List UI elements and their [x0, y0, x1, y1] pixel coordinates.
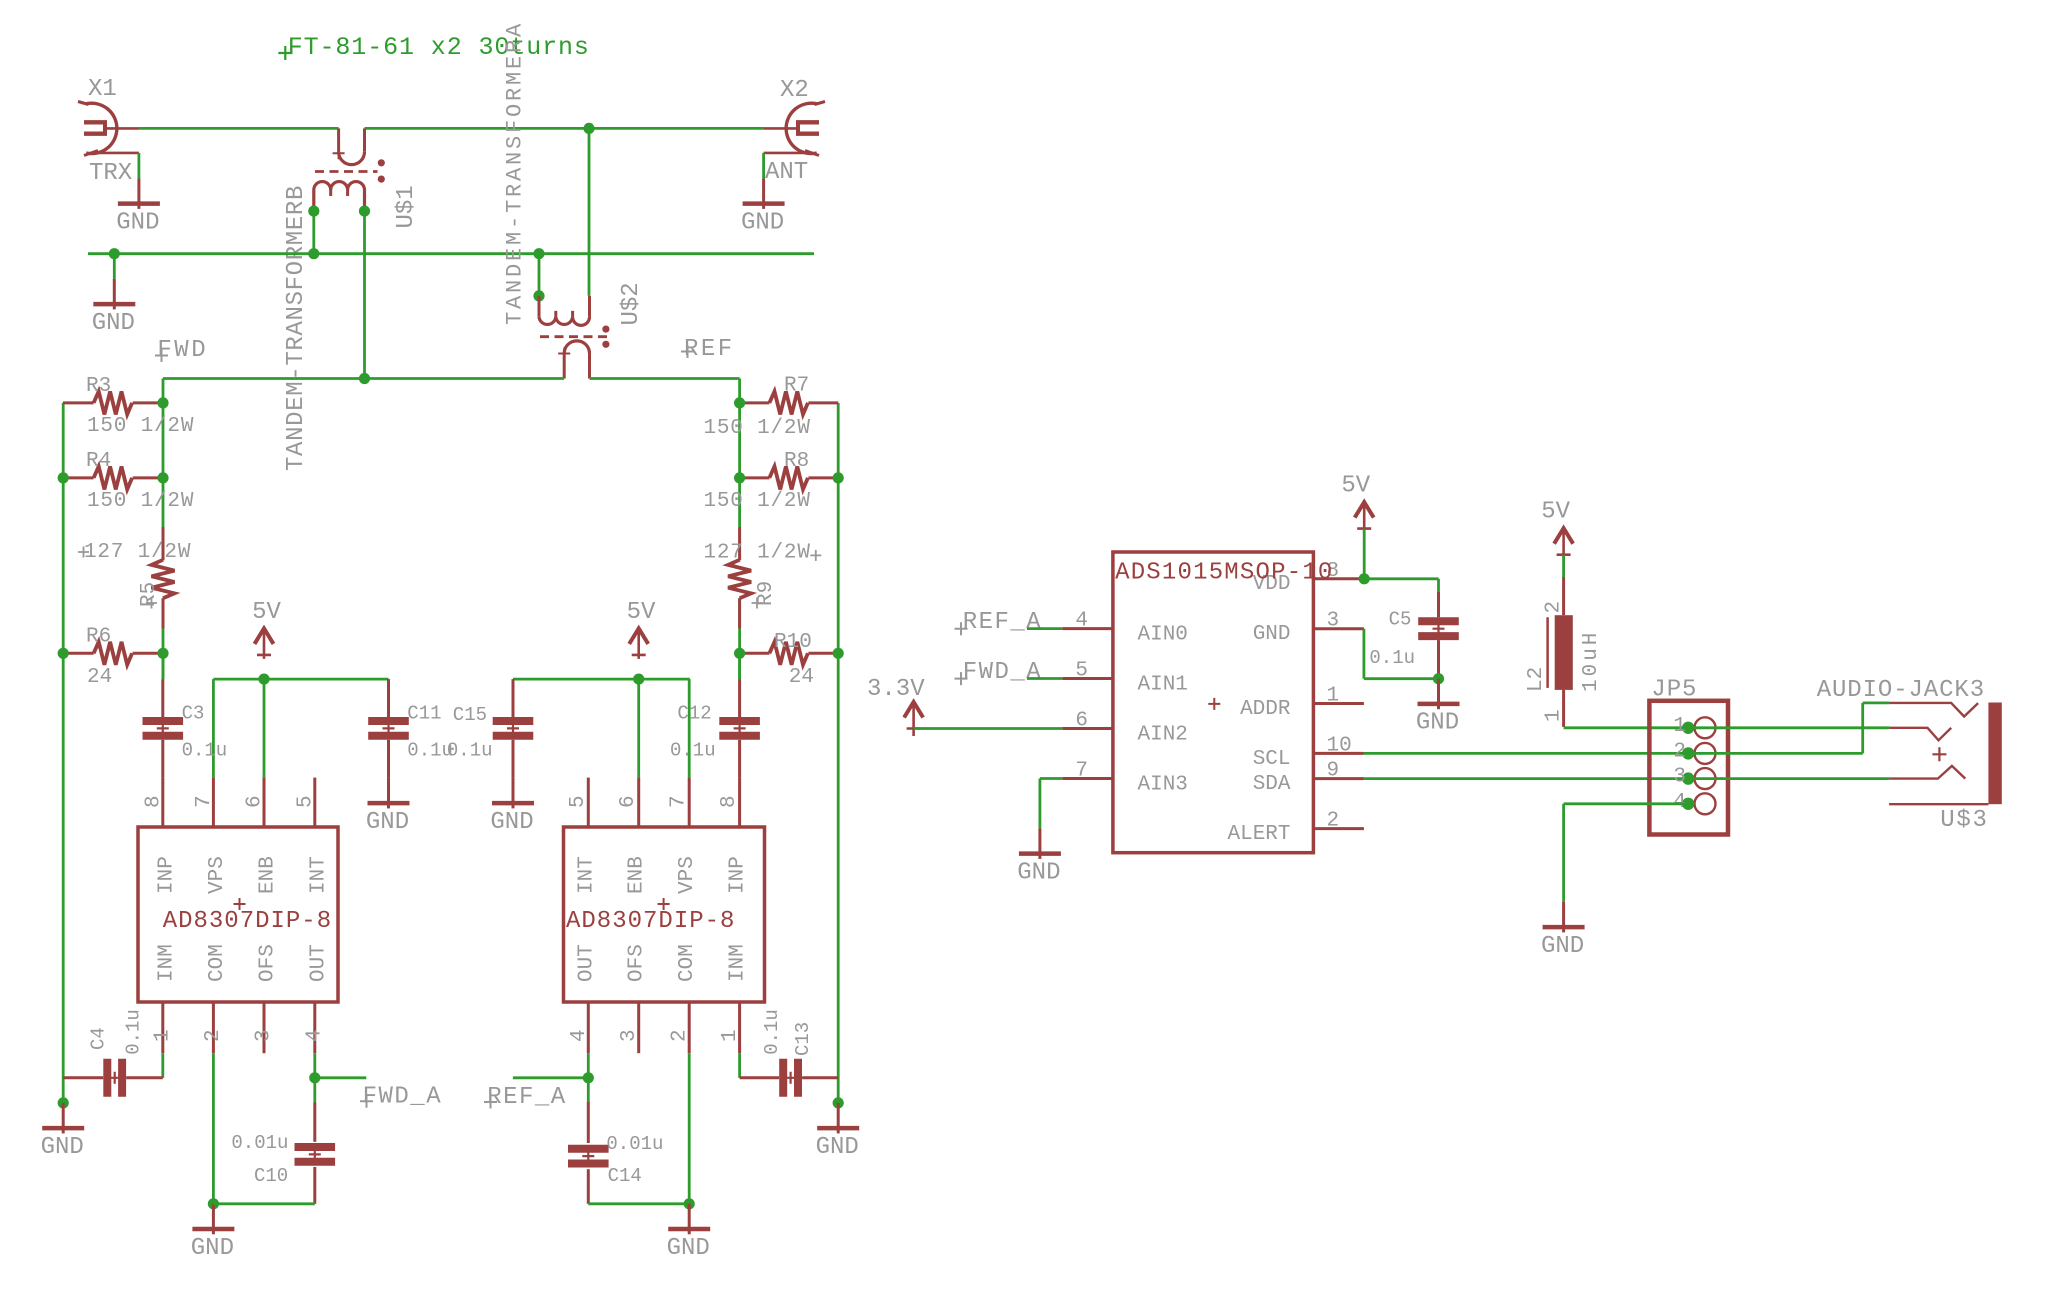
wire U$1 left leg to rail2 [312, 211, 315, 254]
wire 5V right drop to ENB pin6 [637, 679, 640, 778]
svg-text:INT: INT [307, 856, 330, 894]
capacitor C5 leads [1437, 592, 1440, 617]
svg-text:0.1u: 0.1u [123, 1009, 145, 1055]
IC2 top pin 5 stub [587, 778, 590, 827]
svg-text:2: 2 [1327, 810, 1340, 833]
wire second rail [88, 252, 814, 255]
transformer U$1 secondary [314, 182, 365, 212]
svg-text:4: 4 [1075, 610, 1088, 633]
capacitor C11 leads [387, 679, 390, 717]
ADS pin 1 stub [1313, 702, 1364, 705]
svg-text:R7: R7 [784, 375, 809, 398]
wire 3.3V to AIN2 [914, 727, 1063, 730]
IC1 bottom pin 1 stub [161, 1002, 164, 1053]
svg-text:1: 1 [1327, 685, 1340, 708]
svg-text:INP: INP [155, 856, 178, 894]
svg-text:ANT: ANT [765, 159, 808, 186]
ground GND (C14) [667, 1204, 711, 1262]
resistor R9 [728, 527, 751, 628]
svg-text:AIN0: AIN0 [1138, 624, 1188, 647]
svg-text:1: 1 [151, 1029, 174, 1042]
wire FWD_A to AIN1 [1027, 677, 1062, 680]
JP5 pin 3 pad [1695, 768, 1716, 789]
svg-text:R10: R10 [774, 631, 812, 654]
wire REF column down [738, 379, 741, 528]
transformer U$2 primary [558, 341, 589, 379]
ground GND (JP5) [1541, 902, 1585, 960]
transformer U$1 polarity dots [378, 159, 385, 166]
node R10 right [833, 648, 844, 659]
node C10 ground junction [208, 1198, 219, 1209]
wire U$1 right leg to FWD rail [363, 211, 366, 378]
resistor R3 [63, 391, 163, 414]
wire IC1 pin1 to C4 [161, 1053, 164, 1078]
svg-text:X2: X2 [780, 77, 809, 104]
JP5 pin 4 pad [1695, 793, 1716, 814]
resistor R6 [63, 642, 163, 665]
wire JP5 pin3 to jack contact [1688, 777, 1889, 780]
svg-text:REF_A: REF_A [963, 609, 1043, 636]
svg-text:AIN1: AIN1 [1138, 674, 1188, 697]
svg-text:TANDEM-TRANSFORMERB: TANDEM-TRANSFORMERB [283, 185, 310, 471]
svg-text:VPS: VPS [206, 856, 229, 894]
svg-text:GND: GND [490, 809, 533, 836]
svg-text:C12: C12 [677, 702, 711, 724]
svg-text:C3: C3 [182, 702, 205, 724]
node R6 right [157, 648, 168, 659]
ground GND (C11) [366, 778, 410, 836]
svg-text:0.01u: 0.01u [231, 1132, 288, 1154]
svg-text:4: 4 [303, 1029, 326, 1042]
wire REF rail [590, 377, 740, 380]
svg-text:SDA: SDA [1253, 773, 1291, 796]
svg-text:0.1u: 0.1u [447, 740, 493, 762]
wire X2 shield to ground [762, 153, 765, 179]
svg-text:TRX: TRX [89, 160, 132, 187]
svg-text:AD8307DIP-8: AD8307DIP-8 [163, 908, 332, 935]
svg-text:INM: INM [727, 944, 750, 982]
svg-text:C11: C11 [407, 702, 441, 724]
svg-text:GND: GND [116, 209, 159, 236]
ADS pin 6 stub [1062, 727, 1113, 730]
wire JP5 pin4 to ground [1564, 802, 1689, 805]
svg-text:2: 2 [669, 1029, 692, 1042]
svg-text:5V: 5V [627, 599, 656, 626]
capacitor C12 [719, 721, 760, 736]
svg-text:2: 2 [202, 1029, 225, 1042]
ground GND (AIN3) [1017, 828, 1061, 886]
wire SDA to JP5 pin3 [1364, 777, 1688, 780]
svg-text:8: 8 [718, 795, 741, 808]
node R4 left [58, 472, 69, 483]
wire IC2 pin1 to C13 [738, 1053, 741, 1078]
svg-text:OFS: OFS [626, 944, 649, 982]
ground GND (rail2) [92, 279, 136, 337]
IC2 top pin 8 stub [738, 778, 741, 827]
wire REF column R9 to R10 [738, 598, 741, 679]
wire top rail left (X1 to U$1) [139, 127, 339, 130]
node FWD rail / U$1 right leg [359, 373, 370, 384]
resistor R7 [740, 391, 839, 414]
IC1 top pin 6 stub [263, 778, 266, 827]
wire 5V to VDD pin8 [1363, 529, 1366, 579]
svg-text:150 1/2W: 150 1/2W [87, 490, 194, 513]
IC1 bottom pin 2 stub [212, 1002, 215, 1053]
svg-text:7: 7 [193, 795, 216, 808]
svg-text:GND: GND [741, 209, 784, 236]
svg-text:U$1: U$1 [393, 185, 420, 228]
capacitor C13 leads [740, 1076, 780, 1079]
wire FWD column R5 to R6 [162, 598, 165, 679]
svg-text:6: 6 [617, 795, 640, 808]
JP5 pin3 stub [1716, 777, 1724, 779]
capacitor C15 [493, 721, 534, 736]
svg-text:ADDR: ADDR [1240, 698, 1291, 721]
svg-text:2: 2 [1673, 740, 1686, 763]
wire IC2 pin4 OUT down [587, 1053, 590, 1101]
node U$2 left leg [533, 290, 544, 301]
capacitor C3 [143, 721, 184, 736]
capacitor C14 leads [587, 1101, 590, 1143]
svg-text:VPS: VPS [676, 856, 699, 894]
inductor L2 [1548, 577, 1573, 727]
svg-text:150 1/2W: 150 1/2W [704, 417, 811, 440]
svg-text:5V: 5V [1541, 499, 1570, 526]
ADS pin 10 stub [1313, 752, 1364, 755]
jack U$3 sleeve pin [1889, 803, 1988, 805]
svg-text:FT-81-61 x2 30turns: FT-81-61 x2 30turns [288, 33, 590, 62]
wire top rail right (U$1 to X2) [365, 127, 764, 130]
svg-text:8: 8 [142, 795, 165, 808]
capacitor C4 leads [63, 1076, 103, 1079]
svg-text:5: 5 [567, 795, 590, 808]
JP5 pin 1 pad [1695, 717, 1716, 738]
svg-text:5: 5 [294, 795, 317, 808]
connector X2 (BNC ANT) [764, 102, 825, 156]
wire 5V left drop to VPS pin7 [212, 679, 215, 778]
svg-text:REF: REF [684, 336, 735, 363]
svg-text:OUT: OUT [307, 944, 330, 982]
ground GND (C10) [191, 1204, 235, 1262]
svg-text:3: 3 [618, 1029, 641, 1042]
svg-text:AIN2: AIN2 [1138, 724, 1188, 747]
svg-text:GND: GND [41, 1134, 84, 1161]
svg-text:C10: C10 [254, 1165, 288, 1187]
IC1 top pin 8 stub [161, 778, 164, 827]
node R7 left [734, 397, 745, 408]
node left rail ground junction [58, 1097, 69, 1108]
svg-text:4: 4 [1673, 791, 1686, 814]
jack U$3 contact 3 [1889, 766, 1965, 779]
svg-text:OFS: OFS [257, 944, 280, 982]
svg-text:ENB: ENB [257, 856, 280, 894]
wire U$2 right leg drop [588, 128, 591, 295]
jack U$3 contact 2 [1889, 728, 1951, 741]
svg-text:X1: X1 [88, 76, 117, 103]
wire VDD to C5 [1364, 577, 1438, 580]
node R4 right [157, 472, 168, 483]
svg-text:C14: C14 [608, 1165, 642, 1187]
op-amp/logamp U2 AD8307DIP-8 (right) box [564, 827, 765, 1002]
IC U3 ADS1015MSOP-10 box [1113, 552, 1314, 853]
node FWD_A junction [309, 1072, 320, 1083]
wire FWD rail [163, 377, 564, 380]
svg-text:R4: R4 [86, 450, 111, 473]
ground GND (C15) [490, 778, 534, 836]
ground GND (left rail) [41, 1103, 85, 1161]
wire SCL to JP5 pin2 [1364, 752, 1688, 755]
node 5V left [258, 674, 269, 685]
IC1 bottom pin 4 stub [313, 1002, 316, 1053]
node R6 left [58, 648, 69, 659]
IC2 bottom pin 3 stub [637, 1002, 640, 1053]
svg-text:AD8307DIP-8: AD8307DIP-8 [566, 908, 735, 935]
resistor R10 [740, 642, 839, 665]
supply symbol 5V [1341, 473, 1373, 533]
JP5 pin 2 junction [1682, 747, 1694, 759]
IC2 bottom pin 4 stub [587, 1002, 590, 1053]
svg-text:INT: INT [575, 856, 598, 894]
resistor R4 [63, 466, 163, 489]
svg-text:R3: R3 [86, 375, 111, 398]
svg-text:FWD: FWD [157, 337, 208, 364]
op-amp/logamp U1 AD8307DIP-8 (left) box [138, 827, 338, 1002]
svg-text:150 1/2W: 150 1/2W [87, 415, 194, 438]
capacitor C10 leads [313, 1103, 316, 1142]
ADS pin 9 stub [1313, 777, 1364, 780]
svg-text:GND: GND [191, 1235, 234, 1262]
capacitor C14 [568, 1149, 609, 1164]
svg-text:U$3: U$3 [1940, 807, 1988, 834]
ground GND (X1) [116, 178, 160, 236]
resistor R5 [152, 527, 175, 628]
svg-text:FWD_A: FWD_A [963, 659, 1043, 686]
transformer U$2 secondary [539, 296, 590, 326]
svg-text:GND: GND [92, 310, 135, 337]
JP5 pin 1 junction [1682, 722, 1694, 734]
ADS pin 2 stub [1313, 827, 1364, 830]
ADS pin 4 stub [1062, 627, 1113, 630]
svg-text:ENB: ENB [626, 856, 649, 894]
capacitor C10 [295, 1147, 336, 1162]
wire L2 to JP5 pin1 [1564, 726, 1689, 729]
IC2 top pin 6 stub [637, 778, 640, 827]
wire 5V rail right [513, 678, 690, 681]
svg-text:GND: GND [1017, 859, 1060, 886]
transformer U$2 polarity dots [602, 326, 609, 333]
wire right rail [837, 403, 840, 1103]
node U$1 right leg [359, 206, 370, 217]
resistor R8 [740, 466, 839, 489]
svg-text:GND: GND [1253, 623, 1291, 646]
svg-text:5V: 5V [252, 599, 281, 626]
svg-text:7: 7 [1075, 760, 1088, 783]
wire U$2 left leg drop [538, 254, 541, 296]
wire IC1 pin2 to ground [212, 1053, 215, 1204]
svg-text:INP: INP [727, 856, 750, 894]
svg-text:1: 1 [1673, 715, 1686, 738]
node rail2 U$1 left leg [308, 248, 319, 259]
svg-text:GND: GND [1541, 933, 1584, 960]
wire ADS GND pin3 to C5 bottom [1363, 629, 1366, 679]
supply symbol 3.3V [904, 702, 923, 736]
svg-text:JP5: JP5 [1651, 677, 1697, 704]
wire FWD_A stub [315, 1076, 367, 1079]
svg-text:6: 6 [1075, 710, 1088, 733]
svg-text:C4: C4 [87, 1027, 109, 1050]
wire R10 column to C12 [738, 653, 741, 679]
svg-text:U$2: U$2 [618, 282, 645, 325]
capacitor C5 [1418, 621, 1459, 636]
connector X1 (BNC TRX) [78, 102, 139, 156]
svg-text:AUDIO-JACK3: AUDIO-JACK3 [1817, 677, 1985, 704]
ADS pin 7 stub [1062, 777, 1113, 780]
svg-text:0.1u: 0.1u [1369, 647, 1415, 669]
node 5V right [633, 674, 644, 685]
transformer U$1 primary [333, 128, 365, 164]
ground GND (right rail) [816, 1103, 860, 1161]
wire left rail [62, 403, 65, 1103]
svg-text:24: 24 [789, 666, 814, 689]
svg-text:C13: C13 [792, 1022, 814, 1056]
wire IC1 pin4 OUT down [313, 1053, 316, 1102]
svg-text:4: 4 [568, 1029, 591, 1042]
wire FWD column down [162, 379, 165, 528]
jack U$3 contact 1 [1889, 703, 1978, 717]
JP5 pin 4 junction [1682, 798, 1694, 810]
svg-text:ADS1015MSOP-10: ADS1015MSOP-10 [1115, 560, 1333, 587]
svg-text:1: 1 [719, 1029, 742, 1042]
node R8 left [734, 472, 745, 483]
IC2 bottom pin 2 stub [688, 1002, 691, 1053]
svg-text:C5: C5 [1389, 609, 1412, 631]
JP5 pin 3 junction [1682, 772, 1694, 784]
wire 5V to L2 [1562, 555, 1565, 578]
node R3 right [157, 397, 168, 408]
svg-text:127 1/2W: 127 1/2W [704, 542, 811, 565]
svg-text:2: 2 [1543, 601, 1566, 614]
IC1 bottom pin 3 stub [263, 1002, 266, 1053]
svg-text:24: 24 [87, 666, 112, 689]
svg-text:GND: GND [667, 1235, 710, 1262]
wire JP5 pin2 to jack ring2 [1688, 752, 1863, 755]
capacitor C13 [783, 1059, 798, 1097]
svg-text:GND: GND [366, 809, 409, 836]
node right rail ground junction [833, 1097, 844, 1108]
node rail2 U$2 left leg [533, 248, 544, 259]
svg-text:R8: R8 [784, 450, 809, 473]
svg-text:AIN3: AIN3 [1138, 774, 1188, 797]
node C5 ground junction [1433, 673, 1444, 684]
wire X1 shield to ground [137, 153, 140, 179]
svg-text:L2: L2 [1525, 667, 1548, 692]
node rail2 ground tap [109, 248, 120, 259]
wire C10 bottom to ground [213, 1202, 314, 1205]
svg-text:ALERT: ALERT [1227, 823, 1290, 846]
svg-text:5V: 5V [1341, 473, 1370, 500]
svg-text:INM: INM [155, 944, 178, 982]
wire rail2 ground drop [113, 254, 116, 279]
wire 5V left drop to ENB pin6 [263, 679, 266, 778]
svg-text:10: 10 [1327, 734, 1352, 757]
svg-text:COM: COM [676, 944, 699, 982]
node VDD junction [1359, 573, 1370, 584]
svg-text:OUT: OUT [575, 944, 598, 982]
wire REF_A to AIN0 [1027, 627, 1062, 630]
JP5 pin 2 pad [1695, 743, 1716, 764]
wire JP5 pin1 to jack contact [1688, 726, 1889, 729]
connector JP5 box [1649, 701, 1728, 835]
supply symbol 5V [252, 599, 281, 659]
wire 5V rail left [213, 678, 388, 681]
node R8 right [833, 472, 844, 483]
svg-text:1: 1 [1543, 709, 1566, 722]
IC2 top pin 7 stub [688, 778, 691, 827]
ADS pin 3 stub [1313, 627, 1364, 630]
svg-text:0.01u: 0.01u [606, 1133, 663, 1155]
node U$1 left leg [308, 206, 319, 217]
svg-text:9: 9 [1327, 760, 1340, 783]
capacitor C12 leads [738, 679, 741, 717]
ground GND (C5) [1416, 679, 1460, 737]
jack U$3 sleeve bar [1988, 703, 2001, 805]
wire IC2 pin2 to ground [688, 1053, 691, 1204]
svg-text:0.1u: 0.1u [670, 740, 716, 762]
svg-text:FWD_A: FWD_A [363, 1083, 443, 1110]
svg-text:7: 7 [668, 795, 691, 808]
node R10 left [734, 648, 745, 659]
wire 5V right drop to VPS pin7 [688, 679, 691, 778]
svg-text:127 1/2W: 127 1/2W [84, 541, 191, 564]
svg-text:0.1u: 0.1u [182, 740, 228, 762]
svg-text:REF_A: REF_A [487, 1084, 567, 1111]
capacitor C4 [107, 1059, 122, 1097]
IC1 top pin 5 stub [313, 778, 316, 827]
wire AIN3 to ground [1040, 777, 1062, 780]
capacitor C15 leads [512, 679, 515, 717]
node top rail / U$2 drop junction [583, 123, 594, 134]
node C14 ground junction [684, 1198, 695, 1209]
svg-text:R6: R6 [86, 626, 111, 649]
capacitor C3 leads [161, 679, 164, 717]
svg-text:150 1/2W: 150 1/2W [704, 490, 811, 513]
transformer U$1 core [315, 170, 378, 173]
capacitor C11 [368, 721, 409, 736]
svg-text:GND: GND [1416, 710, 1459, 737]
supply symbol 5V [1541, 499, 1573, 559]
svg-text:C15: C15 [453, 704, 487, 726]
wire R6 column to C3 [162, 653, 165, 679]
svg-text:5: 5 [1075, 660, 1088, 683]
ADS pin 5 stub [1062, 677, 1113, 680]
wire REF_A stub [513, 1076, 588, 1079]
IC1 top pin 7 stub [212, 778, 215, 827]
supply symbol 5V [627, 599, 656, 659]
svg-text:6: 6 [244, 795, 267, 808]
wire C14 bottom to ground [588, 1202, 689, 1205]
svg-text:GND: GND [816, 1134, 859, 1161]
svg-text:TANDEM-TRANSFORMERA: TANDEM-TRANSFORMERA [503, 21, 528, 325]
svg-text:3: 3 [253, 1029, 276, 1042]
transformer U$2 core [540, 335, 610, 338]
svg-text:3: 3 [1327, 610, 1340, 633]
ground GND (X2) [741, 178, 785, 236]
IC2 bottom pin 1 stub [738, 1002, 741, 1053]
svg-text:3.3V: 3.3V [867, 676, 925, 703]
svg-text:SCL: SCL [1253, 748, 1291, 771]
svg-text:0.1u: 0.1u [761, 1009, 783, 1055]
node REF_A junction [583, 1072, 594, 1083]
